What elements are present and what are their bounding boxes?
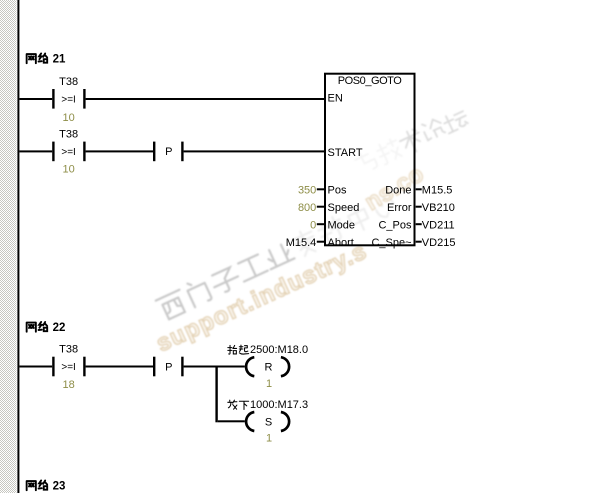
svg-text:1: 1 — [266, 378, 272, 390]
svg-text:Mode: Mode — [328, 219, 356, 231]
svg-text:>=I: >=I — [61, 362, 75, 373]
svg-text:10: 10 — [62, 164, 74, 176]
svg-text:R: R — [265, 362, 273, 374]
svg-text:0: 0 — [310, 219, 316, 231]
svg-text:EN: EN — [328, 92, 343, 104]
svg-text:23: 23 — [53, 481, 66, 493]
svg-text:350: 350 — [298, 185, 316, 197]
svg-text:18: 18 — [62, 379, 74, 391]
svg-text:VD211: VD211 — [422, 219, 455, 231]
svg-text:Error: Error — [387, 202, 412, 214]
svg-text:21: 21 — [53, 54, 66, 66]
svg-text:1000:M17.3: 1000:M17.3 — [250, 399, 308, 411]
svg-text:Done: Done — [385, 185, 411, 197]
svg-text:T38: T38 — [59, 344, 78, 356]
svg-text:M15.4: M15.4 — [286, 237, 317, 249]
svg-text:Abort: Abort — [328, 237, 354, 249]
svg-text:T38: T38 — [59, 76, 78, 88]
svg-text:22: 22 — [53, 322, 66, 334]
svg-text:START: START — [328, 147, 363, 159]
svg-text:2500:M18.0: 2500:M18.0 — [250, 344, 308, 356]
svg-text:M15.5: M15.5 — [422, 185, 453, 197]
svg-text:Speed: Speed — [328, 202, 360, 214]
svg-text:>=I: >=I — [61, 95, 75, 106]
svg-text:POS0_GOTO: POS0_GOTO — [338, 75, 402, 87]
svg-text:Pos: Pos — [328, 185, 347, 197]
svg-text:P: P — [165, 361, 172, 373]
svg-text:10: 10 — [62, 112, 74, 124]
svg-text:C_Spe~: C_Spe~ — [371, 237, 411, 249]
svg-text:VB210: VB210 — [422, 202, 455, 214]
svg-text:800: 800 — [298, 202, 316, 214]
svg-text:T38: T38 — [59, 129, 78, 141]
svg-text:S: S — [265, 416, 272, 428]
svg-text:VD215: VD215 — [422, 237, 456, 249]
svg-text:C_Pos: C_Pos — [378, 219, 412, 231]
svg-text:>=I: >=I — [61, 147, 75, 158]
svg-text:P: P — [165, 146, 172, 158]
svg-text:1: 1 — [266, 433, 272, 445]
